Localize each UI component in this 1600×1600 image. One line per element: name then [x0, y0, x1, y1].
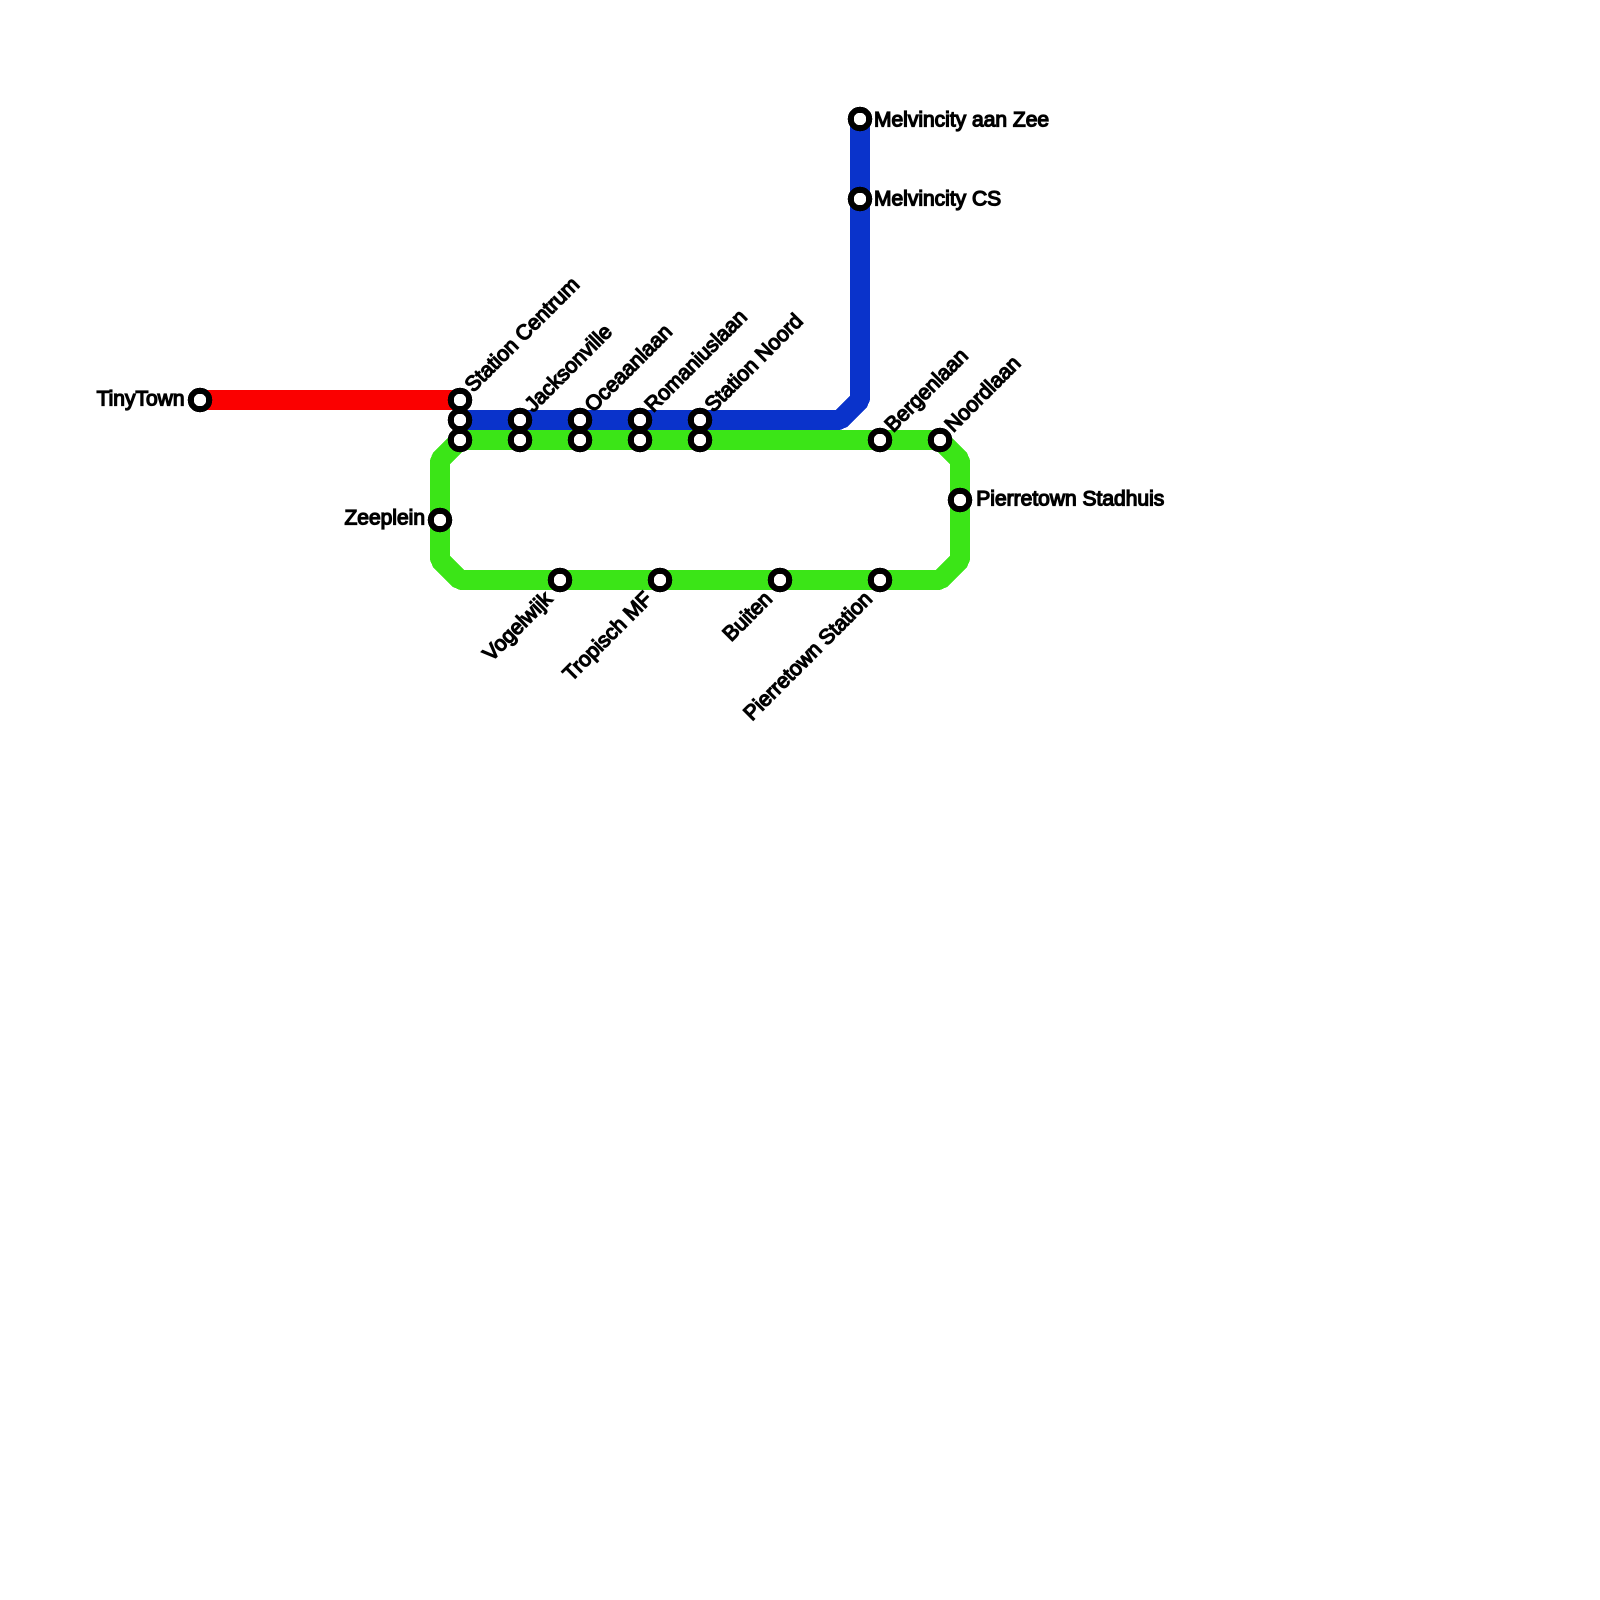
svg-text:Pierretown Stadhuis: Pierretown Stadhuis: [976, 487, 1164, 510]
svg-text:Melvincity aan Zee: Melvincity aan Zee: [874, 109, 1049, 132]
station Station Centrum (red): [451, 391, 470, 410]
station Oceaanlaan (green): [571, 431, 590, 450]
station Station Noord (green): [691, 431, 710, 450]
station Buiten: [771, 571, 790, 590]
station Tropisch MF: [651, 571, 670, 590]
station Romaniuslaan (green): [631, 431, 650, 450]
station Vogelwijk: [551, 571, 570, 590]
station Pierretown Station: [871, 571, 890, 590]
station Pierretown Stadhuis: [951, 491, 970, 510]
station Melvincity aan Zee: [851, 110, 870, 129]
station Melvincity CS: [851, 190, 870, 209]
station Romaniuslaan (blue): [631, 411, 650, 430]
red line TinyTown - Station Centrum: [200, 390, 460, 410]
station TinyTown: [191, 391, 210, 410]
station Jacksonville (blue): [511, 411, 530, 430]
station Zeeplein: [431, 511, 450, 530]
station Station Centrum (blue): [451, 411, 470, 430]
svg-text:TinyTown: TinyTown: [97, 388, 185, 411]
green ring line: [440, 440, 960, 580]
station Oceaanlaan (blue): [571, 411, 590, 430]
blue line Melvincity aan Zee - Station Centrum: [460, 119, 860, 420]
svg-text:Zeeplein: Zeeplein: [344, 507, 425, 530]
station Jacksonville (green): [511, 431, 530, 450]
svg-text:Melvincity CS: Melvincity CS: [874, 188, 1001, 211]
station Station Centrum (green): [451, 431, 470, 450]
station Station Noord (blue): [691, 411, 710, 430]
station Noordlaan: [931, 431, 950, 450]
station Bergenlaan: [871, 431, 890, 450]
